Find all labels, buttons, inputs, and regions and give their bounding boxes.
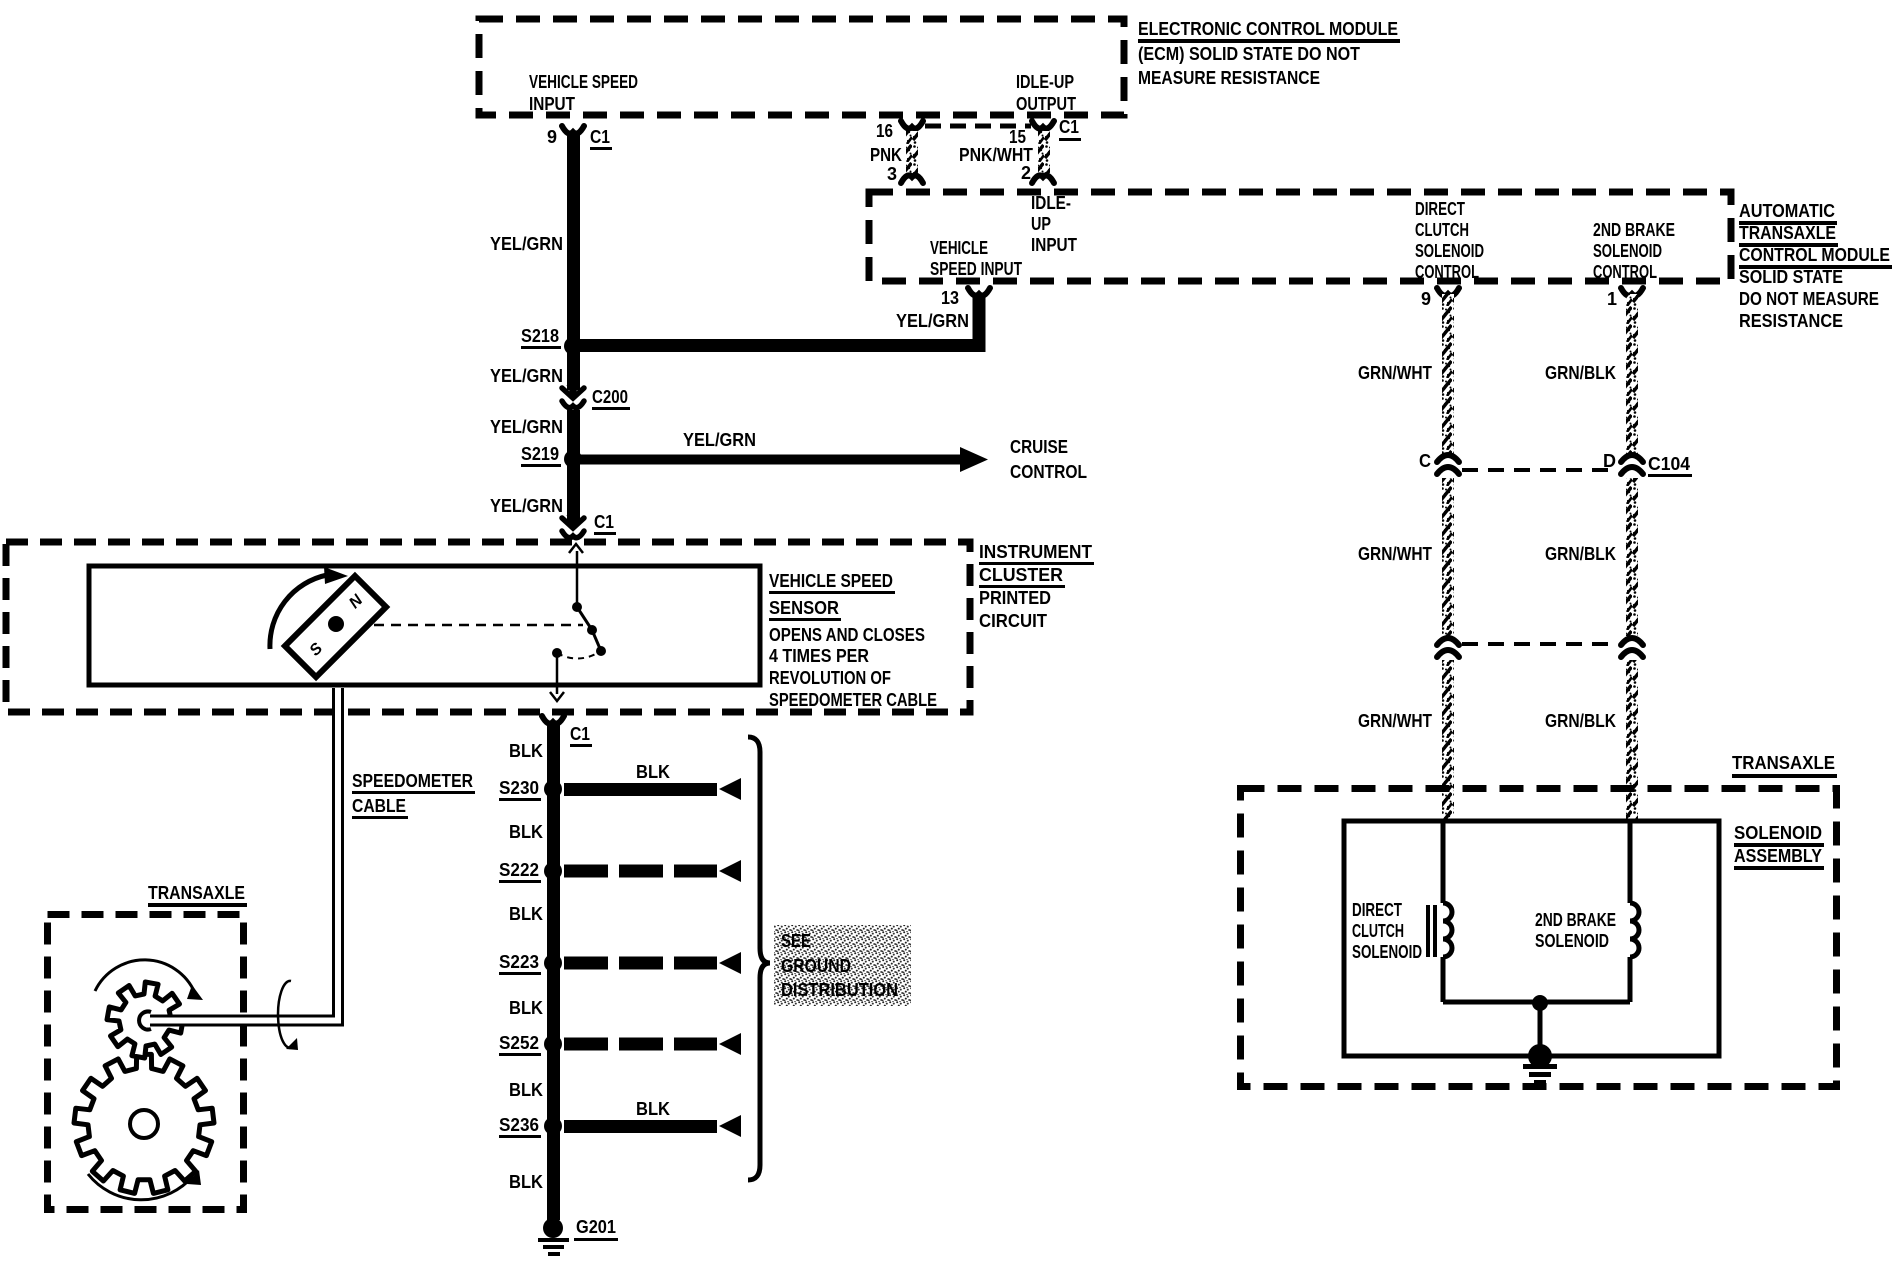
svg-text:GRN/WHT: GRN/WHT xyxy=(1358,711,1432,731)
svg-text:GRN/BLK: GRN/BLK xyxy=(1545,711,1616,731)
splice S230 with ground branch xyxy=(544,780,562,798)
svg-text:9: 9 xyxy=(547,127,557,147)
svg-text:2ND BRAKE: 2ND BRAKE xyxy=(1535,910,1616,930)
svg-text:VEHICLE: VEHICLE xyxy=(930,238,988,258)
ground wire BLK vertical chain xyxy=(547,722,560,1220)
svg-text:S236: S236 xyxy=(499,1115,539,1135)
svg-text:SEE: SEE xyxy=(781,931,811,951)
svg-text:2: 2 xyxy=(1021,163,1031,183)
inline connector pair (left) xyxy=(1437,638,1459,645)
ECM module box xyxy=(479,19,1124,115)
gear rotation arc (top) xyxy=(95,960,195,993)
svg-text:16: 16 xyxy=(876,121,893,141)
svg-text:S252: S252 xyxy=(499,1033,539,1053)
svg-text:C1: C1 xyxy=(570,724,590,744)
svg-text:DO NOT MEASURE: DO NOT MEASURE xyxy=(1739,289,1879,309)
wire PNK/WHT (hatched) pin15 to pin2 xyxy=(1038,131,1050,175)
svg-text:GROUND: GROUND xyxy=(781,956,851,976)
svg-text:BLK: BLK xyxy=(636,762,670,782)
svg-text:VEHICLE SPEED: VEHICLE SPEED xyxy=(769,571,893,591)
svg-text:IDLE-UP: IDLE-UP xyxy=(1016,72,1074,92)
speedometer drive gear (small) xyxy=(107,982,183,1058)
svg-text:BLK: BLK xyxy=(509,998,543,1018)
svg-text:INPUT: INPUT xyxy=(529,94,575,114)
wire GRN/WHT segment 1 (hatched) xyxy=(1442,294,1454,454)
splice S218 xyxy=(564,337,582,355)
wire PNK (hatched) pin16 to pin3 xyxy=(906,131,918,175)
magnet rotation arrow xyxy=(270,575,327,649)
splice S252 with ground branch xyxy=(544,1035,562,1053)
wire YEL/GRN from S219 to cruise control (arrow) xyxy=(573,455,964,465)
wire GRN/BLK segment 3 (hatched) xyxy=(1626,660,1638,821)
gear rotation arc (bottom) xyxy=(88,1174,193,1200)
dashed jumper between connector pair xyxy=(1462,642,1618,646)
magnet (rotating, N-S) xyxy=(285,576,386,677)
cable rotation ellipse arrow xyxy=(278,981,294,1048)
instrument cluster box (dashed) xyxy=(6,542,970,712)
svg-text:GRN/BLK: GRN/BLK xyxy=(1545,544,1616,564)
svg-text:3: 3 xyxy=(887,164,897,184)
svg-text:DIRECT: DIRECT xyxy=(1352,900,1402,920)
vehicle speed sensor box xyxy=(89,566,760,685)
svg-text:GRN/WHT: GRN/WHT xyxy=(1358,544,1432,564)
svg-text:INPUT: INPUT xyxy=(1031,235,1077,255)
svg-text:CLUSTER: CLUSTER xyxy=(979,565,1063,585)
svg-text:TRANSAXLE: TRANSAXLE xyxy=(148,883,245,903)
svg-text:ASSEMBLY: ASSEMBLY xyxy=(1734,846,1822,866)
svg-text:INSTRUMENT: INSTRUMENT xyxy=(979,542,1092,562)
svg-text:SOLID STATE: SOLID STATE xyxy=(1739,267,1843,287)
speedometer cable (double line) xyxy=(150,1015,343,1027)
svg-text:S222: S222 xyxy=(499,860,539,880)
svg-text:SPEEDOMETER CABLE: SPEEDOMETER CABLE xyxy=(769,690,937,710)
svg-text:CONTROL MODULE: CONTROL MODULE xyxy=(1739,245,1890,265)
svg-text:MEASURE RESISTANCE: MEASURE RESISTANCE xyxy=(1138,68,1320,88)
svg-text:G201: G201 xyxy=(576,1217,616,1237)
svg-text:SOLENOID: SOLENOID xyxy=(1352,942,1422,962)
wire GRN/BLK segment 2 (hatched) xyxy=(1626,478,1638,636)
svg-text:C200: C200 xyxy=(592,387,628,407)
reed switch contacts and arm xyxy=(576,551,579,604)
wire GRN/WHT segment 3 (hatched) xyxy=(1442,660,1454,821)
svg-text:9: 9 xyxy=(1421,289,1431,309)
svg-text:SOLENOID: SOLENOID xyxy=(1535,931,1609,951)
svg-text:GRN/WHT: GRN/WHT xyxy=(1358,363,1432,383)
svg-text:1: 1 xyxy=(1607,289,1617,309)
brace (ground branches group) xyxy=(748,737,770,1180)
svg-text:CLUTCH: CLUTCH xyxy=(1352,921,1404,941)
splice S219 xyxy=(564,450,582,468)
svg-text:AUTOMATIC: AUTOMATIC xyxy=(1739,201,1835,221)
svg-text:DISTRIBUTION: DISTRIBUTION xyxy=(781,980,898,1000)
svg-text:C: C xyxy=(1419,451,1431,471)
svg-text:PNK: PNK xyxy=(870,145,902,165)
svg-text:CLUTCH: CLUTCH xyxy=(1415,220,1469,240)
svg-text:YEL/GRN: YEL/GRN xyxy=(896,311,969,331)
note SEE GROUND DISTRIBUTION xyxy=(774,925,911,1006)
svg-text:PRINTED: PRINTED xyxy=(979,588,1051,608)
svg-text:S219: S219 xyxy=(521,444,559,464)
wire GRN/WHT segment 2 (hatched) xyxy=(1442,478,1454,636)
svg-text:YEL/GRN: YEL/GRN xyxy=(683,430,756,450)
wire junction to case ground xyxy=(1538,1003,1543,1056)
svg-text:CONTROL: CONTROL xyxy=(1593,262,1657,282)
svg-text:OPENS AND CLOSES: OPENS AND CLOSES xyxy=(769,625,925,645)
svg-text:(ECM) SOLID STATE DO NOT: (ECM) SOLID STATE DO NOT xyxy=(1138,44,1360,64)
C1 dashed jumper between pin 16 and pin 15 xyxy=(925,124,1031,129)
splice S222 with ground branch xyxy=(544,862,562,880)
svg-text:SPEED INPUT: SPEED INPUT xyxy=(930,259,1022,279)
svg-text:PNK/WHT: PNK/WHT xyxy=(959,145,1033,165)
wire YEL/GRN from ECM pin 9 down to S218 xyxy=(567,132,580,342)
direct clutch solenoid coil xyxy=(1441,821,1446,903)
C104 dashed jumper xyxy=(1462,468,1618,472)
direct clutch solenoid core bars xyxy=(1426,905,1430,957)
svg-text:CRUISE: CRUISE xyxy=(1010,437,1068,457)
connector C1 below instrument cluster xyxy=(542,716,564,724)
solenoid assembly box xyxy=(1344,821,1719,1056)
svg-text:CONTROL: CONTROL xyxy=(1415,262,1479,282)
wire YEL/GRN S218 to C200 xyxy=(567,346,580,390)
svg-text:BLK: BLK xyxy=(636,1099,670,1119)
svg-text:C104: C104 xyxy=(1648,454,1690,474)
dashed link from magnet to reed switch xyxy=(374,624,583,627)
svg-text:DIRECT: DIRECT xyxy=(1415,199,1465,219)
svg-text:ELECTRONIC CONTROL MODULE: ELECTRONIC CONTROL MODULE xyxy=(1138,19,1398,39)
svg-text:S218: S218 xyxy=(521,326,559,346)
svg-text:YEL/GRN: YEL/GRN xyxy=(490,366,563,386)
svg-text:C1: C1 xyxy=(594,512,614,532)
svg-text:YEL/GRN: YEL/GRN xyxy=(490,417,563,437)
svg-text:REVOLUTION OF: REVOLUTION OF xyxy=(769,668,891,688)
svg-text:2ND BRAKE: 2ND BRAKE xyxy=(1593,220,1675,240)
wire YEL/GRN S219 to C1 xyxy=(567,459,580,523)
svg-text:4 TIMES PER: 4 TIMES PER xyxy=(769,646,869,666)
svg-text:BLK: BLK xyxy=(509,1080,543,1100)
svg-text:SOLENOID: SOLENOID xyxy=(1415,241,1484,261)
svg-text:RESISTANCE: RESISTANCE xyxy=(1739,311,1843,331)
svg-text:YEL/GRN: YEL/GRN xyxy=(490,496,563,516)
splice S223 with ground branch xyxy=(544,954,562,972)
junction node xyxy=(1532,995,1548,1011)
svg-text:C1: C1 xyxy=(590,127,610,147)
svg-text:CABLE: CABLE xyxy=(352,796,406,816)
inline connector pair (right) xyxy=(1621,638,1643,645)
svg-text:13: 13 xyxy=(941,288,959,308)
svg-text:SOLENOID: SOLENOID xyxy=(1593,241,1662,261)
svg-text:BLK: BLK xyxy=(509,904,543,924)
svg-text:VEHICLE SPEED: VEHICLE SPEED xyxy=(529,72,638,92)
svg-text:C1: C1 xyxy=(1059,117,1079,137)
ground (solenoid case) xyxy=(1528,1044,1552,1068)
ground G201 xyxy=(543,1218,563,1238)
svg-text:SOLENOID: SOLENOID xyxy=(1734,823,1822,843)
wire GRN/BLK segment 1 (hatched) xyxy=(1626,294,1638,454)
svg-text:15: 15 xyxy=(1009,127,1026,147)
svg-text:BLK: BLK xyxy=(509,822,543,842)
svg-text:YEL/GRN: YEL/GRN xyxy=(490,234,563,254)
svg-text:GRN/BLK: GRN/BLK xyxy=(1545,363,1616,383)
svg-text:SPEEDOMETER: SPEEDOMETER xyxy=(352,771,473,791)
splice S236 with ground branch xyxy=(544,1117,562,1135)
svg-text:OUTPUT: OUTPUT xyxy=(1016,94,1076,114)
svg-text:CONTROL: CONTROL xyxy=(1010,462,1087,482)
svg-text:S230: S230 xyxy=(499,778,539,798)
svg-text:TRANSAXLE: TRANSAXLE xyxy=(1732,753,1835,773)
svg-text:IDLE-: IDLE- xyxy=(1031,193,1071,213)
svg-text:S223: S223 xyxy=(499,952,539,972)
connector C1 at instrument cluster xyxy=(567,515,580,528)
svg-text:BLK: BLK xyxy=(509,1172,543,1192)
wire YEL/GRN C200 to S219 xyxy=(567,410,580,459)
connector C200 xyxy=(567,385,580,398)
driven gear (large) xyxy=(74,1054,214,1193)
ATCM module box (automatic transaxle control module) xyxy=(869,192,1731,281)
wire from coils to junction xyxy=(1443,1000,1540,1005)
svg-text:TRANSAXLE: TRANSAXLE xyxy=(1739,223,1836,243)
svg-text:SENSOR: SENSOR xyxy=(769,598,839,618)
svg-text:BLK: BLK xyxy=(509,741,543,761)
2nd brake solenoid coil xyxy=(1628,821,1633,903)
svg-text:CIRCUIT: CIRCUIT xyxy=(979,611,1047,631)
svg-text:UP: UP xyxy=(1031,214,1051,234)
wire YEL/GRN from pin 13 down and left to S218 xyxy=(573,294,979,346)
